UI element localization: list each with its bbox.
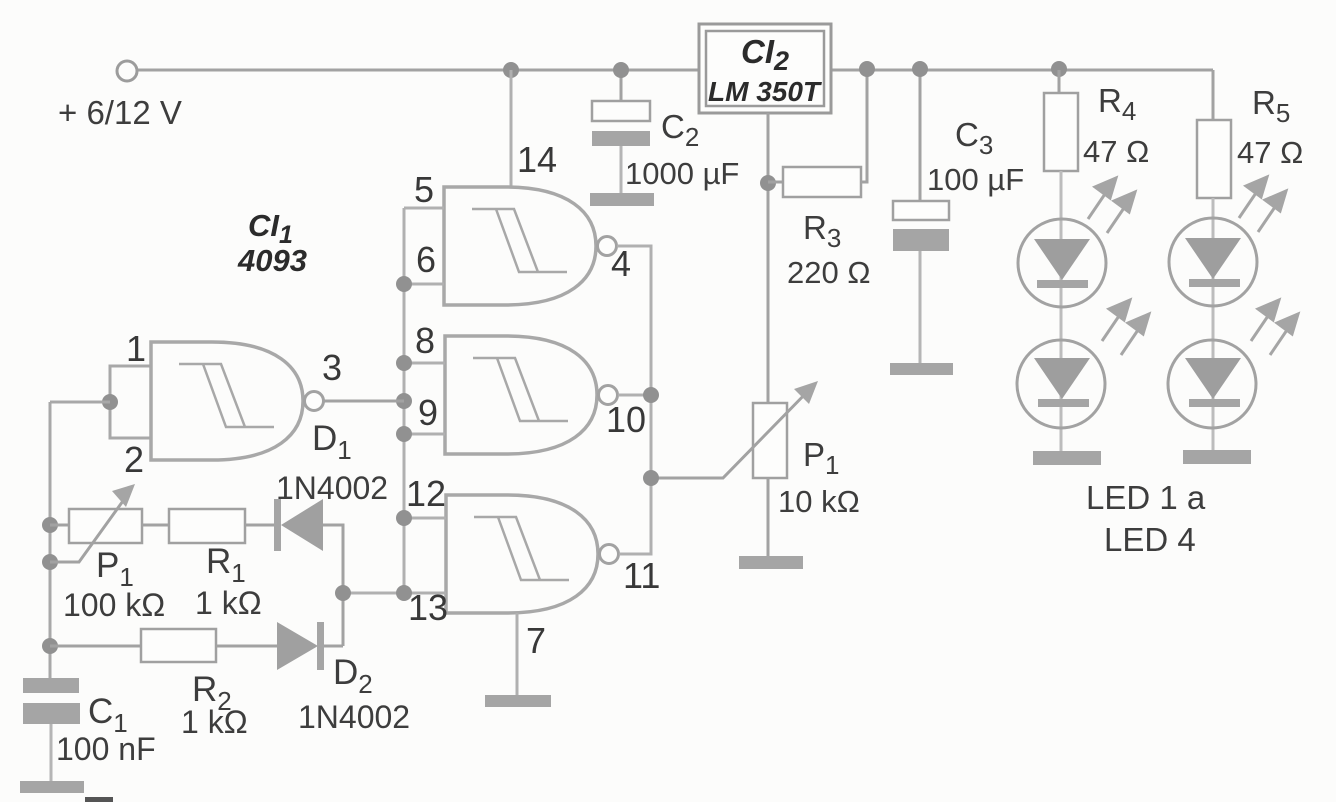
wire P1 bottom [767,478,770,557]
wire pin 5 [404,207,444,210]
resistor R5 [1197,120,1231,198]
gate U1d body (pins 12,13 out 11) [446,495,598,613]
wire node to left bus [50,401,110,404]
wire C2 drop [620,70,623,103]
svg-text:7: 7 [526,620,546,661]
wire R3 left [768,181,783,184]
node R3 top [859,61,875,77]
svg-text:1N4002: 1N4002 [276,470,388,506]
LED 2 [1017,340,1105,428]
wire left bus vertical [49,402,52,679]
svg-text:4: 4 [611,243,631,284]
LED 3 [1169,218,1257,306]
svg-text:100 µF: 100 µF [927,162,1024,197]
junction dot CI2-R3 [760,175,776,191]
wire bus to P1 [50,524,69,527]
node C2 drop [613,62,629,78]
wire top rail [138,69,1213,72]
bubble out 3 [305,392,324,411]
wire P1 to R1 [142,524,169,527]
capacitor C2 [592,101,650,194]
LED3 light arrows [1239,177,1286,232]
wire wiper horizontal [651,387,812,478]
ground LED column 2 [1183,450,1251,464]
svg-text:LED 1 a: LED 1 a [1086,479,1206,516]
LED2 light arrows [1102,300,1149,355]
svg-text:220 Ω: 220 Ω [787,255,871,290]
svg-text:13: 13 [408,587,448,628]
wire R5 to LED3 [1212,198,1215,450]
wire out 4 to bus [617,246,651,554]
wire out 10 to bus [618,394,651,397]
diode D2 [277,622,324,670]
gate U1b body (pins 5,6 out 4) [444,187,596,305]
node R4 top [1051,61,1067,77]
svg-text:11: 11 [623,555,660,596]
svg-text:1: 1 [126,328,146,369]
wire R4 to LED1 [1060,171,1063,451]
svg-text:9: 9 [418,392,438,433]
ground P1 [739,556,803,569]
svg-text:4093: 4093 [237,243,307,278]
arrowhead P1 wiper [794,381,818,404]
wire D1 to corner [323,525,343,646]
node wiper takeoff [643,470,659,486]
wire pin14 drop [510,70,513,188]
LED1 light arrows [1088,178,1135,233]
wire pin 12 [404,517,446,520]
svg-text:LM 350T: LM 350T [708,76,823,107]
scan artifact bottom [85,797,113,802]
potentiometer P1 body [753,403,787,478]
node pin13 [396,585,412,601]
wire pin 13 row [343,592,446,595]
wire R3 right up to rail [861,70,867,182]
svg-text:1 kΩ: 1 kΩ [195,585,262,621]
wire input bus vertical [403,208,406,593]
wire rail corner to R5 [1212,70,1215,121]
bubble out 4 [598,237,617,256]
node pin1-2 [102,394,118,410]
wire bus to R2 [50,645,141,648]
node D1-D2 join [335,585,351,601]
svg-text:100 kΩ: 100 kΩ [63,587,165,623]
wire pin7 to ground [516,613,519,696]
resistor R3 [783,167,861,197]
bubble out 10 [599,386,618,405]
node pin12 [396,510,412,526]
svg-text:10 kΩ: 10 kΩ [778,484,860,519]
svg-text:1N4002: 1N4002 [298,699,410,735]
svg-text:5: 5 [414,169,434,210]
node P1 left [42,517,58,533]
svg-text:3: 3 [322,347,342,388]
node wiper left [42,554,58,570]
gate U1a body (pins 1,2 out 3) [151,342,303,460]
node pin9 [396,426,412,442]
wire CI2 output down [767,113,770,478]
gate U1c body (pins 8,9 out 10) [445,336,597,454]
svg-text:12: 12 [406,473,446,514]
capacitor C3 [893,201,949,364]
op-amp U: CI2 LM350T box [699,24,831,113]
wire out 3 to bus [324,400,404,403]
resistor R1 [169,509,245,543]
wire pin 6 [404,283,444,286]
bubble out 11 [600,545,619,564]
svg-text:14: 14 [517,139,557,180]
node R2 left [42,638,58,654]
arrowhead P1 wiper [112,484,135,507]
wire R1 to D1 [245,524,277,527]
node pin8 [396,355,412,371]
wire R4 top [1058,70,1061,94]
ground C3 [890,363,953,375]
resistor R4 [1044,93,1078,171]
wire P1 wiper diagonal [50,494,128,562]
svg-text:2: 2 [124,439,144,480]
svg-text:1000 µF: 1000 µF [625,156,739,191]
LED 1 [1018,219,1106,307]
svg-text:47 Ω: 47 Ω [1083,134,1149,169]
svg-text:47 Ω: 47 Ω [1237,135,1303,170]
ground C2 [590,193,654,206]
LED 4 [1168,340,1256,428]
resistor R2 [141,629,216,662]
svg-text:8: 8 [415,320,435,361]
node pin14 drop [503,62,519,78]
diode D1 [274,499,323,551]
node pin6 [396,276,412,292]
LED4 light arrows [1251,300,1298,355]
wire R2 to D2 [216,645,277,648]
wire pin 9 [404,433,445,436]
supply terminal circle [117,61,137,81]
node C3 top [912,61,928,77]
svg-text:1 kΩ: 1 kΩ [181,704,248,740]
svg-text:100 nF: 100 nF [56,731,156,767]
svg-text:LED 4: LED 4 [1104,521,1196,558]
wire D2 to corner [324,645,343,648]
svg-text:+ 6/12 V: + 6/12 V [58,94,182,131]
wire pin 8 [404,362,445,365]
ground LED column 1 [1033,451,1101,465]
node out3 join [396,393,412,409]
svg-text:10: 10 [606,399,646,440]
node out10 [643,387,659,403]
ground C1 [20,781,84,793]
potentiometer P1 body [69,509,142,543]
ground pin 7 [485,695,551,707]
capacitor C1 [23,678,80,783]
svg-text:6: 6 [416,239,436,280]
wire pins 1-2 tie [110,366,151,438]
wire C3 drop [919,70,922,203]
